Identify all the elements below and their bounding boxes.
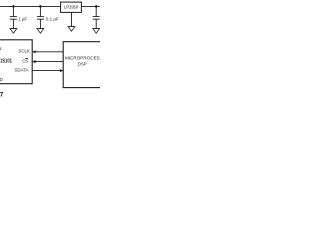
- svg-text:SCLK: SCLK: [18, 48, 30, 53]
- svg-text:0.1 µF: 0.1 µF: [46, 16, 59, 21]
- pin label CS overline: [25, 57, 28, 59]
- wire CS: [32, 61, 63, 63]
- microprocessor U3 box (cut off at right edge): [63, 42, 111, 88]
- svg-text:DSP: DSP: [78, 61, 87, 66]
- wire LP2950 ground lead: [71, 12, 73, 26]
- arrowhead SDATA into microprocessor: [60, 69, 63, 72]
- capacitor C1 1uF: [10, 6, 17, 28]
- capacitor C2 0.1uF: [37, 6, 44, 28]
- svg-text:CS: CS: [22, 58, 28, 63]
- svg-text:ND: ND: [0, 77, 4, 82]
- capacitor C3 output: [93, 6, 100, 28]
- svg-text:7: 7: [0, 93, 4, 99]
- svg-text:1S101: 1S101: [0, 58, 12, 65]
- wire supply rail right segment: [81, 5, 100, 7]
- node junction dot B: [39, 5, 42, 8]
- svg-text:MICROPROCESSOR/: MICROPROCESSOR/: [65, 56, 100, 61]
- wire supply rail left segment: [0, 5, 61, 7]
- svg-text:N: N: [0, 46, 1, 51]
- ground GND4 regulator: [68, 27, 76, 32]
- regulator U2 LP2950 box: [61, 2, 82, 12]
- wire SDATA: [32, 70, 63, 72]
- wire SCLK: [32, 51, 63, 53]
- node junction dot A: [12, 5, 15, 8]
- svg-text:LP2950: LP2950: [64, 5, 79, 10]
- ground GND2: [37, 29, 45, 34]
- svg-text:SDATA: SDATA: [15, 67, 29, 72]
- ground GND3: [92, 29, 100, 34]
- ground GND1: [10, 29, 18, 34]
- arrowhead SCLK into ADC: [32, 50, 35, 53]
- ADC U1 ADC121S101 box (cut off at left edge): [0, 40, 32, 84]
- arrowhead CS into ADC: [32, 60, 35, 63]
- svg-text:1 µF: 1 µF: [18, 17, 27, 22]
- node junction dot C: [95, 5, 98, 8]
